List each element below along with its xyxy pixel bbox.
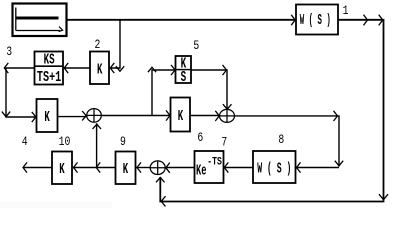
svg-text:TS+1: TS+1	[37, 69, 61, 85]
svg-text:3: 3	[6, 45, 12, 60]
svg-text:6: 6	[197, 131, 203, 146]
svg-text:4: 4	[22, 135, 28, 150]
svg-text:-TS: -TS	[207, 155, 222, 168]
svg-text:8: 8	[278, 133, 284, 148]
svg-text:10: 10	[59, 135, 71, 150]
svg-text:5: 5	[193, 39, 199, 54]
svg-text:KS: KS	[44, 52, 55, 69]
svg-text:1: 1	[343, 4, 349, 19]
svg-text:S: S	[181, 69, 187, 86]
svg-text:9: 9	[120, 135, 126, 150]
svg-text:W ( S ): W ( S )	[300, 13, 331, 29]
svg-text:7: 7	[221, 135, 227, 150]
svg-text:W ( S ): W ( S )	[257, 160, 291, 177]
svg-text:K: K	[178, 108, 184, 125]
svg-text:2: 2	[95, 38, 101, 53]
svg-text:K: K	[44, 109, 50, 126]
svg-text:K: K	[123, 161, 129, 178]
svg-text:K: K	[59, 161, 65, 178]
svg-text:K: K	[97, 61, 103, 78]
svg-text:Ke: Ke	[196, 162, 206, 179]
